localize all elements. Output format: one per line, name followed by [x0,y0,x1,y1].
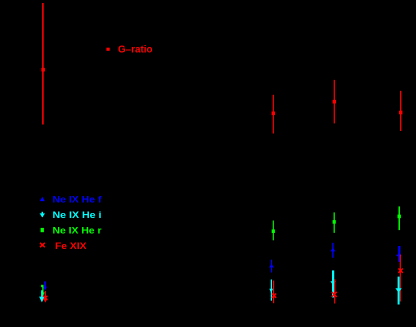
legend row 4: Fe XIX (red) [40,241,87,252]
svg-text:Ne IX He f: Ne IX He f [53,194,103,205]
cluster 4 cyan upper limit [395,277,401,305]
cluster 3 cyan upper limit [330,270,335,297]
cluster 2 green point error bar [272,221,275,241]
svg-text:Fe XIX: Fe XIX [55,241,87,252]
legend row 2: Ne IX He i (cyan) [40,210,102,221]
G-ratio point 1 error bar [41,3,45,125]
legend row 3: Ne IX He r (green) [41,225,102,236]
cluster 1 red upper limit arrow with x marker [43,291,47,303]
svg-text:G–ratio: G–ratio [118,44,153,56]
svg-text:Ne IX He r: Ne IX He r [53,225,102,236]
svg-text:Ne IX He i: Ne IX He i [53,210,102,221]
cluster 1 cyan upper limit arrow [39,290,45,302]
cluster 4 blue point error bar [397,246,402,262]
cluster 3 green point error bar [333,212,336,233]
cluster 2 red point error bar with x [272,281,276,304]
cluster 4 green point error bar [398,206,401,230]
cluster 3 red point error bar with x [332,279,337,303]
cluster 2 cyan upper limit [269,280,273,301]
cluster 1 green upper limit arrow [41,285,45,297]
legend row 1: Ne IX He f (blue) [40,194,103,205]
cluster 2 blue point error bar [269,260,274,273]
G-ratio point 4 error bar [399,91,402,131]
G-ratio point 3 error bar [333,80,336,124]
cluster 3 blue point error bar [331,243,336,258]
cluster 4 red point error bar with x [398,255,402,302]
cluster 1 blue upper limit arrow [43,281,47,290]
G-ratio legend marker [106,48,109,51]
G-ratio point 2 error bar [272,95,275,134]
